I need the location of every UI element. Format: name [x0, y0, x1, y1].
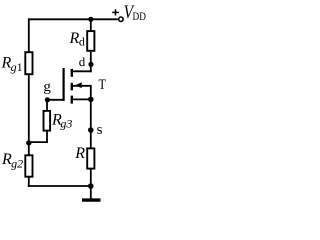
wire: body lead with substrate arrow	[73, 82, 92, 88]
wire: body-to-source connector on right	[90, 86, 92, 100]
junction node: body/source tie point	[88, 97, 94, 103]
svg-text:s: s	[97, 122, 103, 138]
wire: left rail upper segment	[28, 18, 30, 52]
label Rd	[69, 30, 85, 48]
label Rg1	[1, 55, 23, 74]
svg-text:R: R	[74, 145, 85, 162]
ground	[82, 186, 101, 200]
svg-text:T: T	[99, 77, 106, 93]
svg-text:3: 3	[65, 117, 72, 131]
resistor Rg1	[25, 52, 32, 74]
svg-text:1: 1	[17, 60, 23, 74]
svg-text:d: d	[79, 54, 86, 69]
power terminal circle +VDD	[119, 17, 123, 21]
transistor T channel bar (drain segment)	[71, 69, 73, 77]
transistor T channel bar (source segment)	[71, 96, 73, 104]
wire: right rail R bottom to ground junction	[90, 170, 92, 187]
wire: Rg3 bottom down and left to divider tap	[28, 132, 48, 144]
wire: left rail middle segment (Rg1 bottom to Rg2 top)	[28, 75, 30, 156]
wire: right rail from supply to Rd	[90, 19, 92, 31]
svg-text:DD: DD	[133, 11, 146, 23]
svg-text:2: 2	[17, 156, 23, 170]
wire: top supply rail	[28, 18, 118, 20]
label +VDD	[112, 2, 146, 23]
node d (drain terminal dot)	[88, 62, 93, 67]
wire: bottom return wire	[28, 185, 91, 187]
wire: right rail source to R	[90, 99, 92, 148]
svg-text:d: d	[79, 34, 85, 48]
node g (gate terminal dot)	[45, 97, 50, 102]
resistor Rg3	[44, 111, 51, 131]
node s (source terminal dot)	[88, 127, 94, 133]
junction node: top of Rd on supply rail	[88, 17, 93, 22]
resistor Rd	[87, 31, 94, 51]
wire: left rail lower segment (Rg2 bottom to bottom wire)	[28, 177, 30, 187]
wire: drain lead	[72, 70, 92, 72]
label Rg2	[1, 151, 23, 170]
label Rg3	[51, 112, 72, 131]
wire: gate node down to Rg3	[46, 100, 48, 111]
wire: right rail Rd bottom to drain corner	[90, 52, 92, 72]
resistor R	[87, 148, 94, 168]
transistor T (NMOS) gate electrode	[62, 68, 64, 101]
transistor T channel bar (body segment)	[71, 83, 73, 91]
wire: gate lead	[47, 99, 63, 101]
junction node: gate divider tap on left rail	[26, 140, 31, 145]
svg-text:R: R	[69, 30, 80, 47]
wire: source lead	[73, 98, 92, 100]
junction node: bottom ground junction	[88, 183, 94, 189]
svg-text:g: g	[43, 79, 51, 95]
resistor Rg2	[25, 155, 32, 176]
